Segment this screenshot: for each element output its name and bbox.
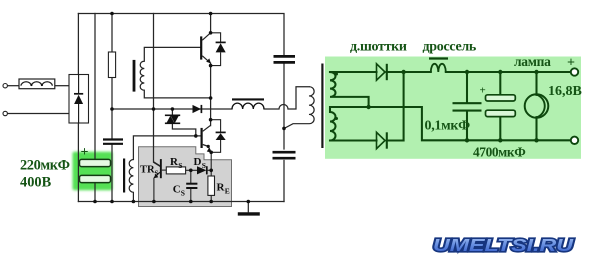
node rail bottom RE: [209, 200, 213, 204]
wire: cap 0.1uF branch: [466, 72, 468, 140]
node diode junction: [401, 70, 405, 74]
wire: bottom diode to riser: [330, 72, 404, 141]
capacitor half-bridge top: [274, 56, 296, 62]
svg-text:S: S: [155, 170, 159, 178]
svg-text:400В: 400В: [20, 174, 52, 190]
diac trigger: [165, 115, 180, 123]
svg-text:0,1мкФ: 0,1мкФ: [425, 119, 471, 134]
node rail-midpoint: [209, 12, 213, 16]
transformer core feedback winding: [133, 60, 136, 92]
transistor TRs: [154, 159, 167, 201]
node top lamp: [534, 70, 538, 74]
node line2 diac tap: [171, 107, 175, 111]
wire: diac to Q2 base: [172, 109, 195, 136]
bridge rectifier VD1: [69, 75, 89, 124]
svg-text:+: +: [81, 145, 89, 160]
node rail bottom TRs emitter: [152, 200, 156, 204]
diode schottky top: [377, 64, 387, 80]
svg-text:S: S: [181, 188, 185, 197]
node rail bottom Cs: [189, 200, 193, 204]
node primary bottom: [282, 127, 286, 131]
gray box (snubber network): [139, 147, 232, 207]
node line2 start: [110, 107, 114, 111]
transistor Q1: [200, 33, 211, 64]
wire: bridge minus down: [77, 123, 79, 202]
svg-text:E: E: [225, 186, 230, 195]
transformer winding TRs drive: [123, 159, 133, 202]
svg-text:UMELTSI.RU: UMELTSI.RU: [433, 235, 573, 255]
capacitor half-bridge bottom: [273, 152, 296, 158]
inductor output choke: [232, 99, 264, 109]
node Q1 collector: [209, 31, 213, 35]
node center tap: [366, 105, 370, 109]
diode on line2: [193, 105, 202, 113]
wire: input line 1: [8, 85, 20, 87]
svg-text:S: S: [202, 161, 206, 170]
terminal output plus: [571, 68, 578, 75]
capacitor 4700uF plates: [486, 95, 516, 117]
wire: choke to primary with hop: [264, 87, 309, 109]
node inductor joint 1: [30, 84, 32, 86]
svg-text:+: +: [567, 56, 575, 71]
wire: input line 2: [8, 113, 70, 115]
svg-text:S: S: [178, 161, 182, 170]
capacitor small film C2: [103, 140, 123, 144]
winding secondary B: [330, 107, 377, 141]
node Ds cathode: [209, 169, 213, 173]
svg-text:TR: TR: [140, 165, 155, 176]
node midpoint lower: [209, 118, 213, 122]
wire: TRs collector vertical: [154, 14, 161, 167]
terminal input 2: [3, 111, 7, 115]
node top 0.1uF: [465, 70, 469, 74]
svg-text:220мкФ: 220мкФ: [20, 157, 70, 173]
node bottom lamp: [534, 138, 538, 142]
svg-text:лампа: лампа: [514, 54, 551, 69]
phasing dot winding B: [335, 117, 338, 120]
node bottom 4700uF: [498, 138, 502, 142]
wire: lamp branch: [535, 72, 537, 140]
svg-text:4700мкФ: 4700мкФ: [473, 144, 525, 159]
capacitor Cs: [186, 170, 197, 201]
inductor input filter: [19, 79, 55, 89]
transformer primary winding: [284, 87, 314, 129]
node Q2 emitter 2: [209, 151, 213, 155]
svg-text:D: D: [194, 156, 202, 168]
node rail bottom x112: [110, 200, 114, 204]
wire: inductor to bridge: [55, 85, 69, 87]
node rail bottom winding: [132, 200, 136, 204]
junction dots green section: [335, 70, 539, 143]
wire: feedback winding loop: [140, 47, 210, 98]
diode Q1 antiparallel: [211, 33, 226, 66]
node line2 TRs tap: [152, 107, 156, 111]
capacitor electrolytic 220uF plates: [80, 159, 111, 182]
phasing dot winding A: [335, 73, 338, 76]
ground symbol: [238, 202, 260, 214]
wire: Q2 base wire: [133, 136, 200, 160]
transformer main core: [321, 64, 323, 149]
node rail bottom ground: [247, 200, 251, 204]
svg-text:C: C: [173, 183, 181, 195]
wire: cap 4700uF branch: [499, 72, 501, 140]
wire: center tap to bottom rail: [369, 107, 571, 140]
svg-text:дроссель: дроссель: [423, 40, 477, 55]
transistor Q2: [201, 125, 212, 152]
green highlight box (secondary output section): [325, 57, 581, 159]
wire: line2 horizontal feed: [112, 108, 232, 110]
lamp: [525, 94, 549, 118]
wire: Q2 emitter chain: [210, 152, 212, 201]
wire: left bus vertical x95: [94, 14, 96, 202]
node Q2 base: [194, 134, 198, 138]
wire: secondary top rail: [330, 71, 571, 73]
watermark umeltsi.ru: [433, 235, 573, 255]
node Q1 emitter: [209, 64, 213, 68]
winding secondary A: [330, 72, 369, 107]
diode Ds: [197, 166, 211, 174]
node rail bottom x95: [93, 200, 97, 204]
resistor R1 top: [108, 52, 115, 78]
node top 4700uF: [498, 70, 502, 74]
diode Q2 antiparallel: [211, 120, 226, 153]
terminal output minus: [571, 137, 578, 144]
node inductor joint 2: [41, 84, 43, 86]
green highlight (220uF bus capacitor): [73, 152, 113, 191]
wire: midpoint vertical: [210, 14, 212, 126]
junction dots left section: [30, 12, 286, 204]
wire: resistor branch vertical x112: [111, 14, 113, 202]
wire: top rail: [78, 14, 284, 56]
node Ds anode: [189, 169, 193, 173]
wire: bottom ground rail: [78, 201, 284, 203]
inductor output dc choke: [429, 59, 448, 73]
svg-text:16,8В: 16,8В: [548, 84, 582, 99]
resistor RE: [208, 176, 215, 195]
capacitor 0.1uF: [453, 103, 482, 110]
node rail-resistor: [110, 12, 114, 16]
diode schottky bottom: [377, 132, 387, 148]
wire: Rs to Ds node: [186, 169, 197, 171]
svg-text:+: +: [480, 85, 486, 97]
svg-text:д.шоттки: д.шоттки: [350, 40, 407, 55]
terminal input 1: [3, 84, 7, 88]
wire: bridge plus to rail: [77, 14, 79, 75]
node loop bottom: [209, 96, 213, 100]
node bottom 0.1uF: [465, 138, 469, 142]
resistor Rs: [166, 167, 185, 174]
node Q2 emitter: [207, 145, 210, 148]
wire: half-bridge caps vertical: [283, 64, 285, 202]
